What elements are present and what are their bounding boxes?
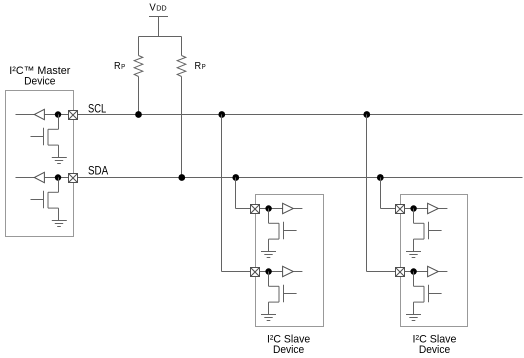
- wire pad to buffer: [405, 271, 428, 273]
- node slave internal S2-SCL: [410, 268, 416, 274]
- wire source to ground: [413, 302, 415, 314]
- wire drain vertical: [58, 115, 60, 130]
- svg-text:V: V: [149, 1, 155, 13]
- wire source to ground: [58, 145, 60, 157]
- buffer amplifier S2-SCL (points right): [428, 266, 439, 276]
- slave cell S2-SCL: [396, 266, 448, 320]
- wire drain vertical: [268, 209, 270, 224]
- node junction R1-SCL: [135, 111, 142, 118]
- wire drain vertical: [268, 272, 270, 287]
- wire drain vertical: [413, 209, 415, 224]
- wire SDA bus line: [78, 177, 523, 179]
- buffer amplifier S1-SDA (points right): [283, 203, 294, 213]
- wire node to pad: [44, 114, 68, 116]
- buffer amplifier S2-SDA (points right): [428, 203, 439, 213]
- wire buffer output stub: [16, 114, 35, 116]
- ground: [261, 315, 276, 321]
- node junction R2-SDA: [178, 174, 185, 181]
- transistor SCL open-drain NMOS: [31, 128, 59, 145]
- node junction slave1 SDA tap: [232, 174, 239, 181]
- I2C master device box U1: [6, 91, 74, 237]
- svg-text:SDA: SDA: [88, 164, 109, 178]
- pad slave S1-SDA: [251, 205, 260, 214]
- wire source to ground: [268, 302, 270, 314]
- node junction slave1 SCL tap: [218, 111, 225, 118]
- slave cell S1-SCL: [251, 266, 303, 320]
- wire buffer output stub: [438, 208, 447, 210]
- slave cell S1-SDA: [251, 203, 303, 257]
- node slave internal S2-SDA: [410, 205, 416, 211]
- node master internal SCL: [55, 111, 61, 117]
- wire source to ground: [268, 239, 270, 251]
- power supply VDD bar: [149, 16, 168, 18]
- svg-text:Device: Device: [24, 75, 55, 87]
- wire source to ground: [58, 208, 60, 220]
- buffer amplifier SCL (points left): [34, 109, 44, 119]
- svg-text:R: R: [114, 61, 121, 72]
- wire drain vertical: [58, 178, 60, 193]
- svg-text:Device: Device: [273, 344, 304, 356]
- buffer amplifier SDA (points left): [34, 172, 44, 182]
- pad slave S2-SDA: [396, 205, 405, 214]
- node slave internal S1-SCL: [265, 268, 271, 274]
- wire pad to buffer: [260, 208, 283, 210]
- wire VDD tee: [139, 36, 182, 38]
- wire node to pad: [44, 177, 68, 179]
- wire buffer output stub: [293, 271, 302, 273]
- wire buffer output stub: [16, 177, 35, 179]
- svg-text:DD: DD: [156, 3, 167, 12]
- master cell SCL: [16, 109, 78, 163]
- wire buffer output stub: [438, 271, 447, 273]
- wire drain vertical: [413, 272, 415, 287]
- resistor R1 left pull-up: [134, 37, 143, 115]
- wire pad to buffer: [405, 208, 428, 210]
- slave cell S2-SDA: [396, 203, 448, 257]
- svg-text:P: P: [202, 62, 206, 71]
- ground: [406, 252, 421, 258]
- ground: [52, 158, 67, 164]
- transistor S1-SCL open-drain NMOS mirrored: [269, 285, 297, 302]
- wire pad to buffer: [260, 271, 283, 273]
- transistor S2-SDA open-drain NMOS mirrored: [414, 222, 442, 239]
- node junction slave2 SCL tap: [363, 111, 370, 118]
- pad slave S2-SCL: [396, 268, 405, 277]
- node slave internal S1-SDA: [265, 205, 271, 211]
- ground: [406, 315, 421, 321]
- svg-text:SCL: SCL: [88, 101, 106, 115]
- svg-text:R: R: [195, 61, 202, 72]
- resistor R2 right pull-up: [177, 37, 186, 178]
- node junction slave2 SDA tap: [377, 174, 384, 181]
- wire SCL bus line: [78, 114, 523, 116]
- wire slave1 SDA branch: [236, 178, 251, 209]
- buffer amplifier S1-SCL (points right): [283, 266, 294, 276]
- wire buffer output stub: [293, 208, 302, 210]
- wire slave1 SCL branch: [222, 115, 251, 272]
- wire slave2 SCL branch: [367, 115, 396, 272]
- svg-text:Device: Device: [419, 344, 450, 356]
- wire VDD stem: [158, 17, 160, 37]
- I2C slave device box U3: [401, 195, 468, 327]
- pad master SCL: [69, 111, 78, 120]
- svg-text:P: P: [121, 62, 125, 71]
- ground: [52, 221, 67, 227]
- pad slave S1-SCL: [251, 268, 260, 277]
- transistor S1-SDA open-drain NMOS mirrored: [269, 222, 297, 239]
- ground: [261, 252, 276, 258]
- master cell SDA: [16, 172, 78, 226]
- I2C slave device box U2: [256, 195, 324, 327]
- wire slave2 SDA branch: [381, 178, 396, 209]
- pad master SDA: [69, 174, 78, 183]
- transistor S2-SCL open-drain NMOS mirrored: [414, 285, 442, 302]
- transistor SDA open-drain NMOS: [31, 191, 59, 208]
- wire source to ground: [413, 239, 415, 251]
- node master internal SDA: [55, 174, 61, 180]
